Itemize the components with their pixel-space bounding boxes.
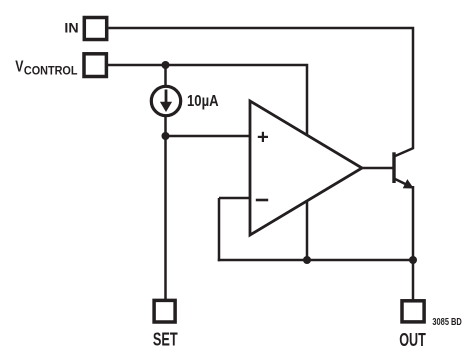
- node junction dot at VCONTROL / current source: [162, 61, 170, 69]
- wire: op-amp bottom edge to rail: [306, 199, 309, 260]
- node junction dot op-amp bottom on rail: [303, 256, 311, 264]
- svg-text:3085 BD: 3085 BD: [432, 317, 461, 328]
- svg-text:OUT: OUT: [399, 330, 426, 350]
- label VCONTROL: [15, 58, 77, 77]
- wire IN net: from IN box right to x=413, down to transistor collector: [109, 28, 414, 149]
- pin box VCONTROL: [84, 54, 106, 77]
- svg-text:V: V: [15, 58, 24, 75]
- wire: inverting input feedback horizontal: [219, 197, 250, 200]
- svg-text:10µA: 10µA: [187, 93, 219, 110]
- op-amp + symbol: [258, 132, 268, 142]
- node junction dot at current source output / op-amp + input: [162, 132, 170, 140]
- emitter diagonal: [394, 179, 411, 187]
- wire VCONTROL net: from box right to x=307, down to op-amp top edge: [108, 65, 307, 136]
- pin box IN: [84, 18, 106, 40]
- wire: current source bottom to SET pin: [164, 115, 167, 300]
- transistor Q1 NPN: [394, 148, 414, 189]
- emitter arrowhead: [403, 179, 414, 188]
- svg-text:IN: IN: [64, 20, 78, 36]
- base bar: [392, 152, 395, 183]
- svg-text:CONTROL: CONTROL: [24, 65, 78, 77]
- wire: current source branch vertical (junction at VCONTROL down through source to SET box): [164, 65, 167, 86]
- pin box OUT: [402, 301, 424, 322]
- pin box SET: [154, 300, 175, 322]
- op-amp - symbol: [256, 199, 268, 202]
- wire: emitter down to OUT pin: [412, 186, 415, 300]
- wire: noninverting input (node at 165,136 to op-amp +): [166, 135, 251, 138]
- wire: bottom feedback rail: [218, 259, 413, 262]
- collector diagonal: [394, 148, 414, 157]
- svg-text:SET: SET: [153, 330, 178, 350]
- wire: op-amp output to transistor base: [362, 167, 393, 170]
- op-amp U1 triangle: [250, 101, 362, 235]
- wire: feedback vertical: [218, 198, 221, 261]
- node junction dot emitter on rail: [409, 256, 417, 264]
- current source I1 10uA: circle with down arrow: [151, 86, 180, 115]
